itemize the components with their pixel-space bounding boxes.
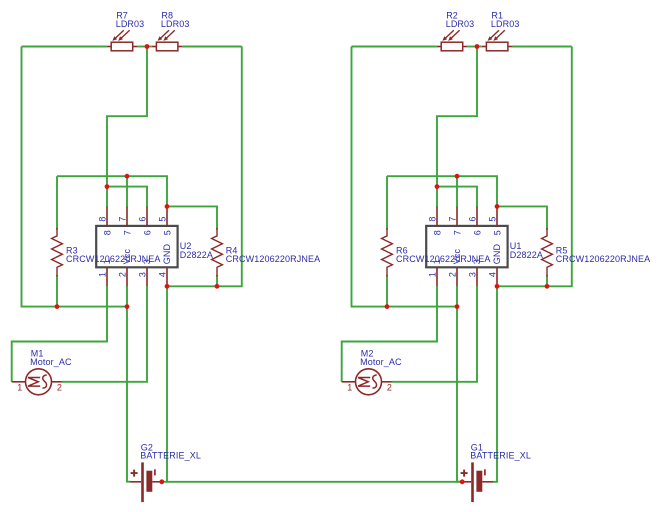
wire bus B pin8 to pin6 right (437, 187, 477, 208)
motor M2 Motor_AC symbol (356, 369, 382, 395)
U2 pin 2 stub (126, 267, 128, 286)
junction pin7 bus A right (455, 174, 460, 179)
resistor R6 zigzag body (382, 228, 393, 277)
U2 pin 3 stub (146, 267, 148, 286)
motor M1 pin 1 stub (12, 381, 26, 383)
wire right vertical rail right (497, 47, 572, 287)
wire R3 bottom left (56, 275, 58, 307)
wire right vertical rail left (167, 47, 242, 287)
op-amp IC U2 D2822A body (96, 226, 177, 267)
svg-text:8: 8 (97, 216, 107, 221)
wire net LDR top rail right (352, 46, 437, 48)
U1 pin 5 stub (496, 207, 498, 226)
battery G1 negative stub (482, 481, 493, 483)
svg-text:2: 2 (447, 272, 457, 277)
svg-text:D2822A: D2822A (510, 250, 543, 260)
motor M1 pin 2 stub (52, 381, 62, 383)
wire pin2 Vcc down to battery G1 right (457, 286, 461, 482)
U2 pin 7 stub (126, 207, 128, 226)
svg-text:5: 5 (487, 216, 497, 221)
wire pin4 GND down to battery G2 left (166, 286, 168, 482)
junction pin5 left (165, 204, 170, 209)
svg-text:LDR03: LDR03 (491, 19, 520, 29)
wire R3 top left (56, 176, 58, 229)
svg-text:1: 1 (17, 382, 22, 392)
svg-text:GND: GND (492, 244, 502, 265)
motor M2 pin 2 stub (382, 381, 392, 383)
wire pin5 to R5 right (497, 206, 547, 229)
svg-text:4: 4 (157, 272, 167, 277)
junction battery G2 negative left (159, 479, 164, 484)
battery G1 positive stub (460, 481, 471, 483)
wire pin3 to motor M2 right (392, 286, 478, 382)
wire bus A to pins 7 and 5 right (387, 176, 497, 207)
junction R5 bottom right (545, 284, 550, 289)
wire LDR junction jog to pin8 right (437, 47, 477, 208)
battery G2 positive stub (130, 481, 141, 483)
wire left vertical rail left (22, 47, 128, 307)
svg-text:3: 3 (467, 272, 477, 277)
junction pin2 bottom rail right (455, 304, 460, 309)
U1 pin 6 stub (476, 207, 478, 226)
junction R4 bottom left (215, 284, 220, 289)
wire pin7 drop right (456, 176, 458, 207)
wire between LDRs right (467, 46, 482, 48)
svg-text:2: 2 (117, 272, 127, 277)
battery G2 negative stub (152, 481, 161, 483)
svg-text:7: 7 (122, 230, 132, 235)
wire pin7 drop left (126, 176, 128, 207)
junction pin7 bus A left (125, 174, 130, 179)
svg-text:2: 2 (57, 382, 62, 392)
wire left vertical rail right (352, 47, 458, 307)
svg-text:CRCW1206220RJNEA: CRCW1206220RJNEA (396, 254, 490, 264)
U1 pin 4 stub (496, 267, 498, 286)
svg-text:6: 6 (467, 216, 477, 221)
svg-text:2: 2 (387, 382, 392, 392)
svg-text:5: 5 (492, 230, 502, 235)
resistor R3 zigzag body (52, 228, 63, 277)
U2 pin 8 stub (106, 207, 108, 226)
photoresistor R2 LDR03 (437, 30, 467, 51)
svg-text:6: 6 (472, 230, 482, 235)
svg-text:7: 7 (452, 230, 462, 235)
motor M2 pin 1 stub (342, 381, 356, 383)
wire LDR right to corner right (512, 46, 571, 48)
svg-text:Motor_AC: Motor_AC (30, 357, 72, 367)
junction pin8 bus B left (105, 184, 110, 189)
svg-text:5: 5 (162, 230, 172, 235)
svg-text:1: 1 (97, 272, 107, 277)
wire bottom battery rail between G2 and G1 (162, 481, 462, 483)
svg-text:5: 5 (157, 216, 167, 221)
wire LDR junction jog to pin8 left (107, 47, 147, 208)
svg-text:8: 8 (102, 230, 112, 235)
svg-text:CRCW1206220RJNEA: CRCW1206220RJNEA (66, 254, 160, 264)
wire pin1 to motor M2 right (342, 286, 437, 382)
battery G1 BATTERIE_XL symbol (461, 462, 485, 502)
wire R6 top right (386, 176, 388, 229)
wire pin5 to R4 left (167, 206, 217, 229)
photoresistor R8 LDR03 (152, 30, 182, 51)
wire between LDRs left (137, 46, 152, 48)
motor M1 Motor_AC symbol (26, 369, 52, 395)
svg-text:D2822A: D2822A (180, 250, 213, 260)
svg-text:4: 4 (487, 272, 497, 277)
resistor R5 zigzag body (542, 228, 553, 277)
U1 pin 3 stub (476, 267, 478, 286)
svg-text:3: 3 (137, 272, 147, 277)
svg-text:Motor_AC: Motor_AC (360, 357, 402, 367)
wire pin2 Vcc down to battery G2 left (127, 286, 131, 482)
svg-text:GND: GND (162, 244, 172, 265)
svg-text:CRCW1206220RJNEA: CRCW1206220RJNEA (556, 254, 650, 264)
wire R5 bottom right (546, 275, 548, 286)
wire R4 bottom left (216, 275, 218, 286)
U2 pin 6 stub (146, 207, 148, 226)
photoresistor R7 LDR03 (107, 30, 137, 51)
U1 pin 2 stub (456, 267, 458, 286)
U2 pin 1 stub (106, 267, 108, 286)
svg-text:LDR03: LDR03 (161, 19, 190, 29)
U2 pin 5 stub (166, 207, 168, 226)
junction pin5 right (495, 204, 500, 209)
junction pin4 GND right (495, 284, 500, 289)
svg-text:6: 6 (142, 230, 152, 235)
svg-text:1: 1 (347, 382, 352, 392)
svg-text:BATTERIE_XL: BATTERIE_XL (140, 451, 201, 461)
battery G2 BATTERIE_XL symbol (131, 462, 155, 502)
junction pin2 bottom rail left (125, 304, 130, 309)
junction pin4 GND left (165, 284, 170, 289)
wire bus B pin8 to pin6 left (107, 187, 147, 208)
svg-text:LDR03: LDR03 (446, 19, 475, 29)
junction pin8 bus B right (435, 184, 440, 189)
junction LDR divider right (475, 44, 480, 49)
svg-text:1: 1 (427, 272, 437, 277)
svg-text:8: 8 (427, 216, 437, 221)
junction R3 bottom left (55, 304, 60, 309)
wire LDR right to corner left (182, 46, 241, 48)
wire net LDR top rail left (22, 46, 107, 48)
svg-text:7: 7 (117, 216, 127, 221)
U1 pin 8 stub (436, 207, 438, 226)
svg-text:BATTERIE_XL: BATTERIE_XL (470, 451, 531, 461)
junction battery G1 positive right (460, 479, 465, 484)
wire pin3 to motor M1 left (62, 286, 148, 382)
svg-text:6: 6 (137, 216, 147, 221)
junction R6 bottom right (385, 304, 390, 309)
svg-text:8: 8 (432, 230, 442, 235)
svg-text:LDR03: LDR03 (116, 19, 145, 29)
svg-text:CRCW1206220RJNEA: CRCW1206220RJNEA (226, 254, 320, 264)
U1 pin 1 stub (436, 267, 438, 286)
wire R6 bottom right (386, 275, 388, 307)
U1 pin 7 stub (456, 207, 458, 226)
photoresistor R1 LDR03 (482, 30, 512, 51)
wire pin4 GND down to battery G1 right (492, 286, 497, 482)
resistor R4 zigzag body (212, 228, 223, 277)
U2 pin 4 stub (166, 267, 168, 286)
wire pin1 to motor M1 left (12, 286, 107, 382)
junction LDR divider left (145, 44, 150, 49)
wire bus A to pins 7 and 5 left (57, 176, 167, 207)
op-amp IC U1 D2822A body (426, 226, 507, 267)
svg-text:7: 7 (447, 216, 457, 221)
